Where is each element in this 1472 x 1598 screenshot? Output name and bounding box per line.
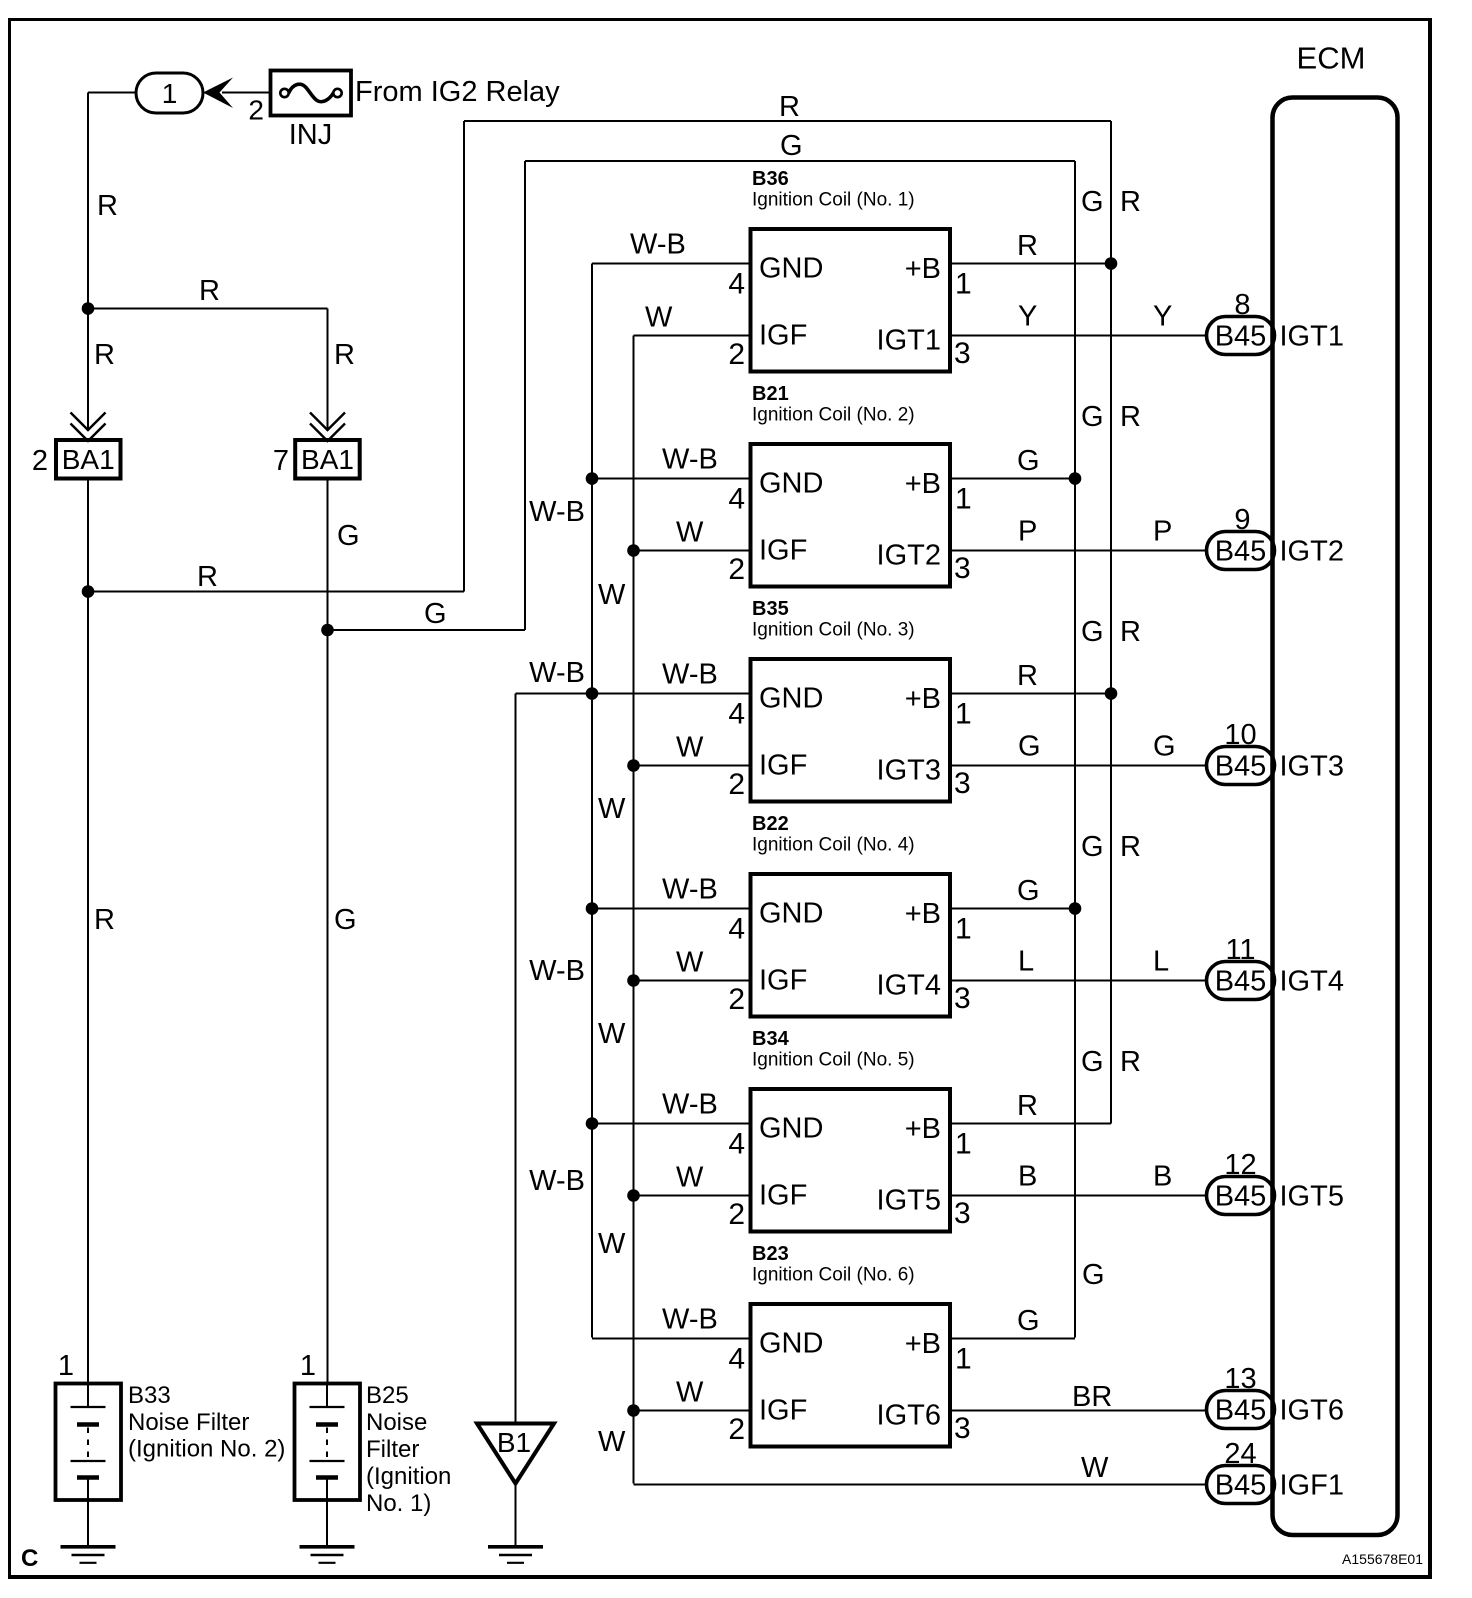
svg-text:B45: B45 <box>1215 1395 1267 1427</box>
wire W-B vertical bus (coil grounds) <box>591 264 593 1338</box>
svg-text:B: B <box>1018 1161 1037 1193</box>
wire W-B from B1 line to B35 GND <box>516 693 751 695</box>
ignition coil B23 (No. 6) box <box>751 1304 951 1447</box>
wire W-B from ground bus to B22 GND <box>592 908 751 910</box>
svg-text:IGT4: IGT4 <box>1280 966 1344 998</box>
ignition coil B35 (No. 3) box <box>751 659 951 802</box>
svg-text:B1: B1 <box>497 1427 531 1458</box>
wire G from B22 +B to supply bus <box>950 908 1075 910</box>
wire R: left vertical from connector 1 down to BA1 arrow <box>87 93 89 432</box>
svg-text:IGT5: IGT5 <box>1280 1181 1344 1213</box>
svg-text:W-B: W-B <box>662 1304 718 1336</box>
svg-text:A155678E01: A155678E01 <box>1342 1551 1423 1567</box>
svg-text:G: G <box>334 904 357 936</box>
ECM box <box>1273 98 1398 1536</box>
svg-text:G: G <box>1081 401 1104 433</box>
svg-text:B23: B23 <box>752 1243 789 1265</box>
svg-text:2: 2 <box>728 338 745 371</box>
wire G from B21 +B to supply bus <box>950 478 1075 480</box>
svg-text:W-B: W-B <box>529 496 585 528</box>
splice arrow above BA1 pin 7 <box>310 413 345 431</box>
svg-text:W: W <box>1081 1452 1109 1484</box>
junction ground bus at B21 <box>586 472 599 485</box>
svg-text:No. 1): No. 1) <box>366 1490 431 1517</box>
svg-text:3: 3 <box>954 1412 971 1445</box>
ground symbol below B33 <box>61 1545 116 1549</box>
junction lower R branch <box>82 585 95 598</box>
svg-text:1: 1 <box>955 1343 972 1376</box>
svg-text:2: 2 <box>728 1413 745 1446</box>
svg-text:2: 2 <box>728 983 745 1016</box>
wire R: riser up to top R bus <box>463 121 465 592</box>
svg-text:IGF: IGF <box>759 750 807 782</box>
svg-text:1: 1 <box>162 78 178 109</box>
svg-text:2: 2 <box>728 553 745 586</box>
wire W from IGF bus to B23 IGF <box>634 1410 751 1412</box>
svg-text:G: G <box>1081 1046 1104 1078</box>
svg-text:IGF: IGF <box>759 965 807 997</box>
junction R bus at B35 +B <box>1105 687 1118 700</box>
svg-text:Filter: Filter <box>366 1436 419 1463</box>
noise filter B25 box (battery symbol) <box>295 1384 361 1501</box>
ignition coil B22 (No. 4) box <box>751 874 951 1017</box>
svg-text:9: 9 <box>1234 504 1250 536</box>
svg-text:R: R <box>1120 831 1141 863</box>
svg-text:4: 4 <box>728 1343 745 1376</box>
svg-text:+B: +B <box>905 898 941 930</box>
connector B45 pin 9 (IGT2) oval <box>1207 532 1275 570</box>
svg-text:IGT3: IGT3 <box>1280 751 1344 783</box>
wire W vertical bus (IGF chain) <box>633 336 635 1484</box>
svg-text:W: W <box>676 947 704 979</box>
svg-text:W: W <box>598 1228 626 1260</box>
svg-text:G: G <box>1017 445 1040 477</box>
wire W-B to shield ground B1 <box>515 694 517 1425</box>
svg-text:IGT5: IGT5 <box>877 1185 941 1217</box>
junction on G wire at branch <box>321 624 334 637</box>
svg-text:1: 1 <box>955 268 972 301</box>
wire G: from BA1 pin 7 down to noise filter B25 <box>327 479 329 1385</box>
svg-text:+B: +B <box>905 1328 941 1360</box>
svg-text:1: 1 <box>955 698 972 731</box>
svg-text:W: W <box>676 732 704 764</box>
wire B33 to ground <box>87 1500 89 1546</box>
svg-text:W-B: W-B <box>662 659 718 691</box>
svg-text:3: 3 <box>954 337 971 370</box>
svg-text:B35: B35 <box>752 598 789 620</box>
svg-text:W: W <box>598 1018 626 1050</box>
svg-text:Ignition Coil (No. 6): Ignition Coil (No. 6) <box>752 1265 915 1286</box>
ground symbol below B25 <box>300 1545 355 1549</box>
svg-text:R: R <box>94 904 115 936</box>
svg-text:G: G <box>1018 731 1041 763</box>
svg-text:B45: B45 <box>1215 1181 1267 1213</box>
svg-text:3: 3 <box>954 552 971 585</box>
svg-text:10: 10 <box>1224 719 1256 751</box>
wire R vertical bus (+B coils 1 3 5) <box>1110 121 1112 1124</box>
svg-text:W: W <box>645 302 673 334</box>
svg-text:IGF: IGF <box>759 1180 807 1212</box>
junction ground bus at B22 <box>586 902 599 915</box>
junction ground bus at B34 <box>586 1117 599 1130</box>
svg-text:R: R <box>94 339 115 371</box>
svg-text:B22: B22 <box>752 813 789 835</box>
svg-text:L: L <box>1153 946 1169 978</box>
svg-text:R: R <box>1017 1090 1038 1122</box>
junction on left R wire <box>82 302 95 315</box>
svg-text:IGT1: IGT1 <box>877 325 941 357</box>
svg-text:8: 8 <box>1234 289 1250 321</box>
connector BA1 pin 2 box <box>56 440 121 479</box>
wire BR from B23 IGT6 to ECM <box>950 1410 1207 1412</box>
svg-text:W: W <box>676 1377 704 1409</box>
svg-text:GND: GND <box>759 1328 823 1360</box>
svg-text:ECM: ECM <box>1297 41 1366 76</box>
svg-text:BA1: BA1 <box>62 444 115 475</box>
wire W-B from ground bus to B21 GND <box>592 478 751 480</box>
svg-text:R: R <box>97 190 118 222</box>
svg-text:11: 11 <box>1225 934 1255 966</box>
svg-text:R: R <box>199 275 220 307</box>
svg-text:Y: Y <box>1153 301 1172 333</box>
svg-text:B33: B33 <box>128 1382 171 1409</box>
svg-text:R: R <box>1120 401 1141 433</box>
svg-text:R: R <box>779 91 800 123</box>
svg-text:GND: GND <box>759 1113 823 1145</box>
svg-text:IGT3: IGT3 <box>877 755 941 787</box>
svg-text:L: L <box>1018 946 1034 978</box>
svg-text:W: W <box>598 793 626 825</box>
svg-text:B45: B45 <box>1215 536 1267 568</box>
wire W from IGF bus to B21 IGF <box>634 550 751 552</box>
svg-text:C: C <box>21 1545 38 1572</box>
svg-text:+B: +B <box>905 253 941 285</box>
wire B25 to ground <box>326 1500 328 1546</box>
connector B45 pin 24 (IGF1) oval <box>1207 1466 1275 1504</box>
junction IGF bus at B35 <box>627 759 640 772</box>
svg-text:G: G <box>1082 1259 1105 1291</box>
svg-text:W-B: W-B <box>529 657 585 689</box>
svg-text:2: 2 <box>728 1198 745 1231</box>
wire B1 to ground <box>515 1484 517 1547</box>
ignition coil B36 (No. 1) box <box>751 229 951 372</box>
junction ground bus at B35 <box>586 687 599 700</box>
svg-text:7: 7 <box>273 445 289 477</box>
fuse INJ box <box>271 71 352 116</box>
svg-text:IGF1: IGF1 <box>1280 1470 1344 1502</box>
svg-text:P: P <box>1018 516 1037 548</box>
wire W from IGF bus to B22 IGF <box>634 980 751 982</box>
svg-text:IGF: IGF <box>759 320 807 352</box>
svg-text:B45: B45 <box>1215 321 1267 353</box>
svg-text:(Ignition No. 2): (Ignition No. 2) <box>128 1436 285 1463</box>
connector B45 pin 10 (IGT3) oval <box>1207 747 1275 785</box>
svg-text:G: G <box>337 520 360 552</box>
wire G: top horizontal bus <box>525 160 1075 162</box>
connector BA1 pin 7 box <box>295 440 360 479</box>
svg-text:W: W <box>598 1426 626 1458</box>
svg-text:IGT6: IGT6 <box>877 1400 941 1432</box>
svg-text:P: P <box>1153 516 1172 548</box>
wire W from IGF bus to B34 IGF <box>634 1195 751 1197</box>
svg-text:4: 4 <box>728 483 745 516</box>
svg-text:B25: B25 <box>366 1382 409 1409</box>
svg-text:IGT6: IGT6 <box>1280 1395 1344 1427</box>
svg-text:W-B: W-B <box>662 444 718 476</box>
svg-text:G: G <box>1153 731 1176 763</box>
svg-text:+B: +B <box>905 1113 941 1145</box>
svg-text:Ignition Coil (No. 2): Ignition Coil (No. 2) <box>752 405 915 426</box>
wire R: drop to BA1 pin 7 <box>327 309 329 432</box>
wire W from IGF bus to B36 IGF <box>634 335 751 337</box>
svg-text:BR: BR <box>1072 1381 1112 1413</box>
svg-text:W: W <box>598 579 626 611</box>
wire R from B36 +B to supply bus <box>950 263 1111 265</box>
connector B45 pin 8 (IGT1) oval <box>1207 317 1275 355</box>
svg-text:24: 24 <box>1224 1438 1256 1470</box>
svg-text:W-B: W-B <box>662 1089 718 1121</box>
svg-text:12: 12 <box>1224 1149 1256 1181</box>
wire Y from B36 IGT1 to ECM <box>950 335 1207 337</box>
svg-text:G: G <box>424 598 447 630</box>
svg-text:W: W <box>676 517 704 549</box>
svg-text:+B: +B <box>905 683 941 715</box>
junction IGF bus at B34 <box>627 1189 640 1202</box>
ignition coil B21 (No. 2) box <box>751 444 951 587</box>
noise filter B33 box (battery symbol) <box>56 1384 122 1501</box>
svg-text:R: R <box>197 561 218 593</box>
svg-text:IGF: IGF <box>759 535 807 567</box>
svg-text:4: 4 <box>728 698 745 731</box>
svg-text:2: 2 <box>32 445 48 477</box>
svg-text:G: G <box>1081 831 1104 863</box>
svg-text:IGF: IGF <box>759 1395 807 1427</box>
svg-text:3: 3 <box>954 1197 971 1230</box>
fuse element symbol <box>280 89 288 97</box>
wire W-B from ground bus to B34 GND <box>592 1123 751 1125</box>
svg-text:R: R <box>1120 186 1141 218</box>
svg-text:IGT4: IGT4 <box>877 970 941 1002</box>
wire P from B21 IGT2 to ECM <box>950 550 1207 552</box>
svg-text:2: 2 <box>248 95 264 126</box>
svg-text:3: 3 <box>954 767 971 800</box>
wire G: riser up to top G bus <box>524 161 526 630</box>
connector B45 pin 13 (IGT6) oval <box>1207 1391 1275 1429</box>
wire from INJ fuse to arrowhead <box>222 92 270 94</box>
svg-text:INJ: INJ <box>289 119 333 151</box>
wire from connector 1 to left vertical (R) <box>88 92 137 94</box>
svg-text:IGT2: IGT2 <box>1280 536 1344 568</box>
svg-text:B36: B36 <box>752 168 789 190</box>
junction IGF bus at B21 <box>627 544 640 557</box>
svg-text:R: R <box>1017 230 1038 262</box>
svg-text:W-B: W-B <box>662 874 718 906</box>
junction G bus at B21 +B <box>1069 472 1082 485</box>
svg-text:3: 3 <box>954 982 971 1015</box>
svg-text:R: R <box>1120 616 1141 648</box>
wire R: horizontal branch to BA1 pin 7 drop <box>88 308 328 310</box>
wire G: horizontal from junction to riser <box>328 629 526 631</box>
svg-text:W-B: W-B <box>529 955 585 987</box>
svg-text:W: W <box>676 1162 704 1194</box>
svg-text:Ignition Coil (No. 1): Ignition Coil (No. 1) <box>752 190 915 211</box>
connector 1 (oval) of INJ <box>136 73 203 113</box>
svg-text:Noise: Noise <box>366 1409 427 1436</box>
connector B45 pin 11 (IGT4) oval <box>1207 962 1275 1000</box>
svg-text:1: 1 <box>300 1350 316 1382</box>
svg-text:4: 4 <box>728 268 745 301</box>
svg-text:GND: GND <box>759 898 823 930</box>
wire G from B23 +B to supply bus <box>950 1338 1075 1340</box>
svg-text:B45: B45 <box>1215 751 1267 783</box>
wire R from B34 +B to supply bus <box>950 1123 1111 1125</box>
connector B45 pin 12 (IGT5) oval <box>1207 1177 1275 1215</box>
svg-text:W-B: W-B <box>529 1165 585 1197</box>
ignition coil B34 (No. 5) box <box>751 1089 951 1232</box>
svg-text:R: R <box>1120 1046 1141 1078</box>
svg-text:GND: GND <box>759 468 823 500</box>
svg-text:4: 4 <box>728 913 745 946</box>
wire L from B22 IGT4 to ECM <box>950 980 1207 982</box>
junction R bus at B36 +B <box>1105 257 1118 270</box>
wire R: top horizontal bus to ECM side <box>464 120 1111 122</box>
svg-text:IGT2: IGT2 <box>877 540 941 572</box>
svg-text:R: R <box>1017 660 1038 692</box>
svg-text:B45: B45 <box>1215 1470 1267 1502</box>
svg-text:R: R <box>334 339 355 371</box>
svg-text:1: 1 <box>955 483 972 516</box>
svg-text:B34: B34 <box>752 1028 790 1050</box>
svg-text:G: G <box>780 130 803 162</box>
svg-text:Y: Y <box>1018 301 1037 333</box>
svg-text:2: 2 <box>728 768 745 801</box>
svg-text:GND: GND <box>759 253 823 285</box>
wire G from B35 IGT3 to ECM <box>950 765 1207 767</box>
svg-text:13: 13 <box>1224 1363 1256 1395</box>
arrowhead into connector 1 <box>203 78 233 109</box>
svg-text:B: B <box>1153 1161 1172 1193</box>
wire B from B34 IGT5 to ECM <box>950 1195 1207 1197</box>
svg-text:Noise Filter: Noise Filter <box>128 1409 249 1436</box>
svg-text:+B: +B <box>905 468 941 500</box>
wire W from IGF bus to B35 IGF <box>634 765 751 767</box>
svg-text:B21: B21 <box>752 383 789 405</box>
svg-text:Ignition Coil (No. 5): Ignition Coil (No. 5) <box>752 1050 915 1071</box>
svg-text:Ignition Coil (No. 3): Ignition Coil (No. 3) <box>752 620 915 641</box>
ground symbol below B1 <box>488 1545 543 1549</box>
svg-text:(Ignition: (Ignition <box>366 1463 451 1490</box>
svg-text:GND: GND <box>759 683 823 715</box>
svg-text:1: 1 <box>58 1350 74 1382</box>
svg-text:IGT1: IGT1 <box>1280 321 1344 353</box>
wire W from IGF bus to ECM IGF1 <box>634 1484 1207 1486</box>
svg-text:G: G <box>1081 616 1104 648</box>
junction G bus at B22 +B <box>1069 902 1082 915</box>
wire R from B35 +B to supply bus <box>950 693 1111 695</box>
svg-text:G: G <box>1081 186 1104 218</box>
junction IGF bus at B22 <box>627 974 640 987</box>
svg-text:1: 1 <box>955 913 972 946</box>
splice arrow above BA1 pin 2 <box>71 413 106 431</box>
shield ground B1 triangle <box>477 1424 554 1484</box>
svg-text:W-B: W-B <box>630 229 686 261</box>
junction IGF bus at B23 <box>627 1404 640 1417</box>
svg-text:G: G <box>1017 1305 1040 1337</box>
svg-text:1: 1 <box>955 1128 972 1161</box>
wire W-B from ground bus to B36 GND <box>592 263 751 265</box>
wire R: lower horizontal from left wire to riser <box>88 591 464 593</box>
svg-text:G: G <box>1017 875 1040 907</box>
wire R: left vertical from BA1 pin 2 down to noise filter B33 <box>87 479 89 1385</box>
wire G vertical bus (+B coils 2 4 6) <box>1074 161 1076 1338</box>
svg-text:B45: B45 <box>1215 966 1267 998</box>
svg-text:From IG2 Relay: From IG2 Relay <box>355 76 560 108</box>
border frame (decorative) <box>8 18 1432 21</box>
wire W-B from ground bus to B23 GND <box>592 1338 751 1340</box>
svg-text:BA1: BA1 <box>301 444 354 475</box>
svg-text:4: 4 <box>728 1128 745 1161</box>
svg-text:Ignition Coil (No. 4): Ignition Coil (No. 4) <box>752 835 915 856</box>
